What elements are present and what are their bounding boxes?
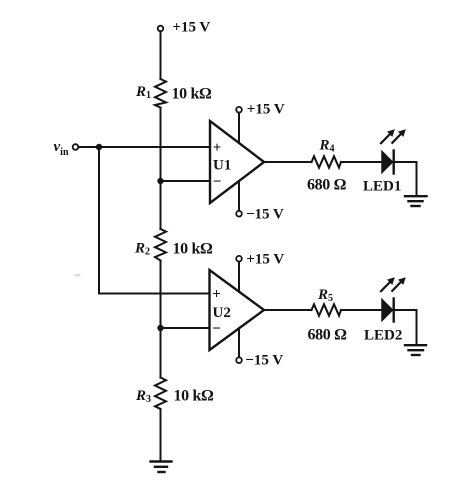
svg-text:−: −: [212, 321, 221, 337]
svg-text:+: +: [213, 140, 222, 156]
wire R3 to ground: [160, 409, 162, 462]
svg-text:−15 V: −15 V: [245, 353, 283, 369]
svg-text:R2: R2: [134, 241, 150, 258]
wire R4 to LED1: [341, 161, 382, 163]
op-amp U1: [210, 121, 264, 203]
svg-text:+15 V: +15 V: [172, 20, 210, 36]
svg-text:LED2: LED2: [364, 328, 402, 344]
junction dot on vin wire: [96, 144, 102, 150]
wire node B to U2 inverting input: [161, 327, 210, 329]
wire R5 to LED2: [341, 309, 382, 311]
svg-text:U2: U2: [213, 305, 231, 321]
svg-text:+15 V: +15 V: [247, 102, 285, 118]
svg-text:−15 V: −15 V: [246, 207, 284, 223]
wire vin to U1 non-inverting input: [78, 146, 210, 148]
op-amp U2: [210, 270, 265, 350]
LED1: [363, 129, 406, 194]
U2 +15 V supply: [236, 252, 284, 292]
svg-text:R3: R3: [135, 388, 151, 405]
node A junction dot: [157, 178, 163, 184]
wire R1 to R2: [160, 108, 162, 230]
U1 +15 V supply: [236, 102, 285, 144]
wire U1 output to R4: [264, 161, 312, 163]
resistor R1: [135, 79, 212, 108]
svg-text:10 kΩ: 10 kΩ: [172, 86, 212, 103]
svg-text:LED1: LED1: [363, 179, 401, 195]
node vin input terminal: [54, 139, 79, 158]
resistor R2: [134, 229, 213, 261]
wire +15V terminal to R1: [160, 31, 162, 79]
U1 -15 V supply: [236, 182, 284, 223]
+15 V supply terminal (top rail): [158, 20, 211, 36]
svg-text:+: +: [212, 287, 221, 303]
svg-text:R4: R4: [319, 138, 335, 155]
ground (bottom of divider): [151, 462, 172, 473]
wire R2 to R3: [160, 261, 162, 378]
svg-text:10 kΩ: 10 kΩ: [174, 388, 214, 405]
resistor R3: [135, 378, 214, 410]
LED2: [364, 277, 406, 343]
resistor R5: [308, 287, 348, 344]
resistor R4: [307, 138, 347, 194]
svg-text:vin: vin: [54, 139, 69, 158]
svg-text:10 kΩ: 10 kΩ: [173, 241, 213, 258]
svg-text:R1: R1: [135, 84, 151, 101]
wire LED2 to ground: [395, 310, 417, 344]
ground (LED2): [405, 345, 426, 355]
ground (LED1): [405, 196, 427, 206]
node B junction dot: [157, 325, 163, 331]
wire LED1 to ground: [395, 162, 417, 195]
U2 -15 V supply: [236, 328, 283, 368]
svg-text:680 Ω: 680 Ω: [307, 177, 347, 194]
svg-text:U1: U1: [213, 158, 231, 174]
svg-text:680 Ω: 680 Ω: [308, 327, 348, 344]
svg-text:R5: R5: [317, 287, 333, 304]
svg-text:−: −: [213, 174, 222, 190]
wire U2 output to R5: [264, 309, 312, 311]
wire node A to U1 inverting input: [161, 180, 211, 182]
svg-text:+15 V: +15 V: [246, 252, 284, 268]
wire vin branch down to U2 non-inverting input: [99, 147, 210, 294]
